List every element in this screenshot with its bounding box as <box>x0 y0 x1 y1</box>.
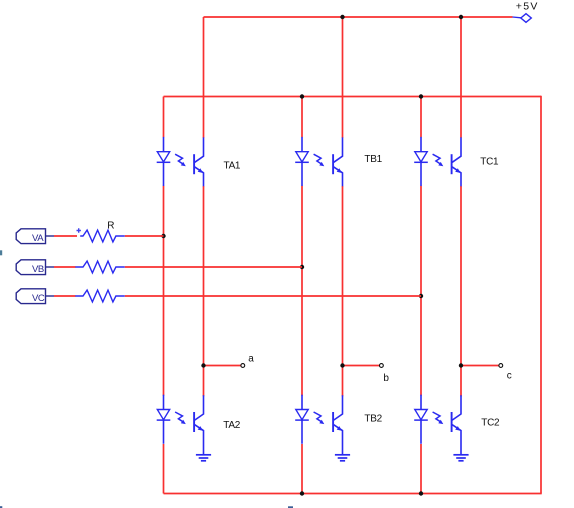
optocoupler TB2 (U5) LED cathode lead <box>301 420 303 444</box>
svg-text:a: a <box>248 354 254 365</box>
junction top rail TB <box>340 15 344 19</box>
junction VA / left rail <box>161 234 165 238</box>
optocoupler TA2 (U4) emitter arrowhead <box>198 426 203 431</box>
svg-text:TC2: TC2 <box>481 418 500 429</box>
wire output b <box>343 365 380 367</box>
junction bottom rail LED B <box>300 491 304 495</box>
optocoupler TB1 (U2) LED triangle <box>296 152 308 162</box>
junction VB / LED rail B <box>300 265 304 269</box>
wire LED rail A middle <box>163 186 165 396</box>
junction output b <box>340 363 344 367</box>
optocoupler TB2 (U5) light arrow <box>314 412 325 424</box>
optocoupler TA2 (U4) LED cathode lead <box>163 420 165 444</box>
junction second rail LED C <box>419 94 423 98</box>
optocoupler TC1 (U3) phototransistor collector lead <box>452 137 461 162</box>
wire LED rail C middle <box>420 186 422 396</box>
optocoupler TA1 (U1) LED cathode lead <box>163 162 165 186</box>
wire transistor rail B emitter to output junction <box>342 186 344 396</box>
node a open terminal <box>241 364 245 368</box>
optocoupler TC1 (U3) emitter arrowhead <box>455 168 460 173</box>
resistor VB zigzag <box>75 261 125 273</box>
optocoupler TB1 (U2) phototransistor collector lead <box>334 137 343 162</box>
svg-text:b: b <box>383 373 389 384</box>
junction top rail TC <box>459 15 463 19</box>
optocoupler TB2 (U5) LED anode lead <box>301 395 303 410</box>
optocoupler TB1 (U2) phototransistor base bar <box>332 154 334 174</box>
optocoupler TB2 (U5) LED cathode bar <box>295 419 309 421</box>
optocoupler TB1 (U2) LED anode lead <box>301 137 303 152</box>
svg-text:R: R <box>107 221 114 232</box>
junction VC / LED rail C <box>419 294 423 298</box>
svg-text:TA1: TA1 <box>224 161 241 172</box>
wire VC stub <box>46 295 55 297</box>
junction second rail LED B <box>300 94 304 98</box>
optocoupler TA1 (U1) LED anode lead <box>163 137 165 152</box>
optocoupler TC1 (U3) LED cathode lead <box>420 162 422 186</box>
+5V power terminal <box>521 14 532 23</box>
optocoupler TB1 (U2) LED cathode lead <box>301 162 303 186</box>
svg-text:TC1: TC1 <box>480 157 499 168</box>
wire LED rail B middle <box>301 186 303 396</box>
junction bottom rail LED C <box>419 491 423 495</box>
optocoupler TA1 (U1) phototransistor base bar <box>193 154 195 174</box>
node b open terminal <box>380 364 384 368</box>
optocoupler TC2 (U6) LED anode lead <box>420 395 422 410</box>
wire top +5V rail <box>204 16 513 18</box>
optocoupler TA2 (U4) LED anode lead <box>163 395 165 410</box>
optocoupler TB2 (U5) LED triangle <box>296 410 308 420</box>
ground TB2 emitter <box>335 455 350 461</box>
source VB box <box>16 260 45 275</box>
optocoupler TB1 (U2) phototransistor emitter lead <box>334 167 343 186</box>
wire transistor rail A emitter to output junction <box>203 186 205 396</box>
optocoupler TC1 (U3) LED anode lead <box>420 137 422 152</box>
optocoupler TC1 (U3) phototransistor emitter lead <box>452 167 461 186</box>
wire second horizontal rail <box>164 96 542 98</box>
optocoupler TC2 (U6) emitter arrowhead <box>455 426 460 431</box>
optocoupler TB2 (U5) phototransistor base bar <box>332 412 334 432</box>
optocoupler TB2 (U5) emitter arrowhead <box>337 426 342 431</box>
polarity + marker on VA <box>77 228 81 232</box>
svg-text:VB: VB <box>32 264 44 275</box>
wire transistor rail C from top rail <box>460 17 462 138</box>
ground TA2 emitter <box>196 455 211 461</box>
optocoupler TB1 (U2) LED cathode bar <box>295 161 309 163</box>
optocoupler TB2 (U5) phototransistor emitter lead <box>334 425 343 455</box>
wire LED rail C lower <box>420 444 422 494</box>
svg-text:TA2: TA2 <box>223 420 240 431</box>
svg-text:TB2: TB2 <box>364 414 382 425</box>
wire VB lead-in red <box>54 266 76 268</box>
optocoupler TA2 (U4) phototransistor collector lead <box>195 395 204 420</box>
wire LED rail C upper <box>420 97 422 138</box>
wire LED rail A lower <box>163 444 165 494</box>
optocoupler TA2 (U4) phototransistor emitter lead <box>195 425 204 455</box>
optocoupler TB1 (U2) light arrow <box>314 154 325 166</box>
optocoupler TC2 (U6) light arrow <box>433 412 444 424</box>
svg-text:VC: VC <box>32 293 45 304</box>
wire LED rail B upper <box>301 97 303 138</box>
wire LED rail B lower <box>301 444 303 494</box>
wire VB stub <box>46 266 55 268</box>
wire transistor rail B from top rail <box>342 17 344 138</box>
source VC box <box>16 289 45 304</box>
wire bottom rail <box>164 493 542 495</box>
wire +5V stub <box>513 16 522 19</box>
optocoupler TC2 (U6) LED cathode bar <box>414 419 428 421</box>
wire VC lead-in red <box>54 295 76 297</box>
resistor VC zigzag <box>75 290 125 302</box>
junction output c <box>459 363 463 367</box>
wire VA stub <box>46 235 55 237</box>
optocoupler TC1 (U3) phototransistor base bar <box>451 154 453 174</box>
artifact left-edge blue square <box>0 250 2 255</box>
optocoupler TC2 (U6) phototransistor collector lead <box>452 395 461 420</box>
svg-text:VA: VA <box>32 233 44 244</box>
wire transistor rail A from top rail <box>203 17 205 138</box>
optocoupler TA1 (U1) light arrow <box>175 154 186 166</box>
optocoupler TC2 (U6) phototransistor emitter lead <box>452 425 461 455</box>
artifact bottom-middle blue mark <box>288 506 293 508</box>
wire VA lead-in red <box>54 235 77 237</box>
wire transistor rail C emitter to output junction <box>460 186 462 396</box>
wire output a <box>204 365 242 367</box>
svg-text:+5V: +5V <box>516 1 539 13</box>
wire LED rail A upper <box>163 97 165 138</box>
optocoupler TB1 (U2) emitter arrowhead <box>337 168 342 173</box>
wire output c <box>461 365 499 367</box>
source VA box <box>16 229 45 244</box>
optocoupler TA2 (U4) phototransistor base bar <box>193 412 195 432</box>
optocoupler TA1 (U1) phototransistor collector lead <box>195 137 204 162</box>
optocoupler TA1 (U1) LED cathode bar <box>157 161 171 163</box>
svg-text:c: c <box>507 371 512 382</box>
optocoupler TC1 (U3) light arrow <box>433 154 444 166</box>
ground TC2 emitter <box>453 455 468 461</box>
optocoupler TA1 (U1) phototransistor emitter lead <box>195 167 204 186</box>
optocoupler TA1 (U1) LED triangle <box>157 152 169 162</box>
wire right rail <box>540 96 542 494</box>
resistor VA zigzag <box>80 230 125 242</box>
optocoupler TA2 (U4) LED triangle <box>157 410 169 420</box>
optocoupler TC2 (U6) LED cathode lead <box>420 420 422 444</box>
optocoupler TB2 (U5) phototransistor collector lead <box>334 395 343 420</box>
wire VA to rail red <box>125 235 164 237</box>
svg-text:TB1: TB1 <box>364 154 382 165</box>
optocoupler TA2 (U4) light arrow <box>175 412 186 424</box>
optocoupler TC1 (U3) LED triangle <box>415 152 427 162</box>
optocoupler TC1 (U3) LED cathode bar <box>414 161 428 163</box>
optocoupler TA2 (U4) LED cathode bar <box>157 419 171 421</box>
optocoupler TC2 (U6) phototransistor base bar <box>451 412 453 432</box>
artifact bottom-left blue mark <box>0 506 2 508</box>
optocoupler TC2 (U6) LED triangle <box>415 410 427 420</box>
wire VC to rail red <box>125 295 421 297</box>
node c open terminal <box>499 364 503 368</box>
wire VB to rail red <box>125 266 302 268</box>
junction output a <box>201 363 205 367</box>
optocoupler TA1 (U1) emitter arrowhead <box>198 168 203 173</box>
